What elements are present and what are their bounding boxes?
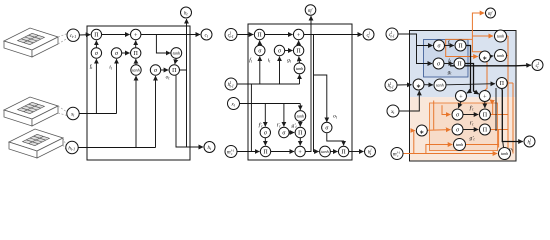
wire product-ho to h^l_t output (349, 151, 364, 153)
orange wire product-i2 elbow (491, 130, 508, 148)
orange wire into tanh-1 (472, 35, 493, 37)
op ast-l (413, 79, 424, 90)
op sigma-i (111, 48, 121, 58)
wire x drop to sigma-f2 (264, 104, 266, 127)
svg-text:tanh: tanh (501, 151, 508, 156)
op sigma-i2 (279, 127, 289, 137)
op product-f2 (479, 109, 490, 120)
op sigma-f2 (452, 109, 463, 120)
inner orange sub-box (430, 103, 498, 151)
op product-o (169, 65, 179, 75)
op tanh-gl (434, 79, 446, 91)
wire m-line input to product-m (237, 151, 259, 153)
node h^l_t output (524, 136, 535, 147)
node c^l_t output (532, 60, 543, 71)
wire product-o to h_t top output (180, 19, 187, 70)
wire product to adder (102, 34, 130, 36)
op ast-b (416, 125, 427, 136)
dashed projection lines slab S2 to node x_t (58, 106, 67, 116)
label i'_t (277, 123, 282, 129)
op tanh-g2 (295, 111, 306, 122)
wire x-line (240, 103, 301, 105)
node m^l_t output (486, 8, 496, 18)
black wire tanh-gl to product-r (446, 84, 495, 85)
wire product-i up to adder (135, 41, 137, 48)
svg-text:tanh: tanh (456, 142, 463, 147)
black wire adder-r down to product-f2 (484, 102, 486, 108)
op tanh-1 (495, 30, 507, 42)
wire tanh-g up to product-ci (298, 57, 301, 64)
label o_t (166, 75, 171, 81)
feature-map slab S1 (input frame for c) (4, 28, 58, 57)
wire sigma-i to product-i (122, 52, 130, 54)
node c^l_{t-1} input (386, 28, 398, 40)
node h_{t-1} input (66, 141, 78, 153)
node c_{t-1} input (67, 29, 79, 41)
svg-text:ct-1: ct-1 (70, 34, 76, 39)
wire product-cf to adder-c (265, 34, 293, 36)
svg-text:+: + (134, 33, 138, 39)
wire sigma-o elbow to product-ho (327, 133, 344, 145)
LSTM cell box (87, 26, 190, 160)
op product-i2 (479, 124, 490, 135)
label o_t (333, 114, 338, 120)
op tanh-o (499, 148, 511, 160)
label o_t (509, 147, 514, 153)
orange wire ast-b to sigma-i2 (427, 129, 450, 132)
svg-text:Π: Π (94, 33, 99, 39)
op adder (131, 29, 141, 39)
wire c-line: c_{t-1} to product (79, 34, 90, 36)
wire adder to c_t output (141, 34, 200, 36)
black wire mid vertical (495, 88, 497, 131)
wire product-ci up to adder-c (298, 41, 300, 46)
op sigma-i (433, 58, 444, 69)
wire c-line input to product (237, 34, 253, 36)
op product-cf (254, 29, 264, 39)
wire h riser to sigma-i (279, 57, 281, 84)
op product-i (454, 58, 465, 69)
op product-ci (293, 45, 303, 55)
wire sigma-f up to product (95, 41, 97, 48)
op sigma-o (150, 65, 160, 75)
label g_t (448, 70, 453, 76)
wire h-line (78, 147, 155, 149)
label f_t (249, 57, 253, 64)
op tanh-g (294, 63, 305, 74)
black wire sigma-i2 to product-i2 (463, 129, 478, 131)
node c^l_t output (363, 29, 374, 40)
node h^l_{t-1} input (385, 79, 397, 91)
orange wire m riser to ast-b (414, 131, 415, 154)
op adder-c (293, 29, 303, 39)
op sigma-f2 (260, 127, 270, 137)
blue region (temporal memory) (410, 31, 515, 97)
black wire c input elbow to sigma-f (398, 34, 432, 64)
svg-text:Π: Π (296, 49, 301, 55)
op product-r (496, 78, 507, 89)
label g_t (287, 58, 292, 64)
op product-f (455, 40, 466, 51)
node m^l_t output (305, 5, 316, 16)
node x_t input (387, 105, 399, 117)
orange wire m riser to tanh-g2 (426, 145, 452, 154)
op product-ho (338, 146, 348, 156)
black thick c-out line to c^l_t (450, 64, 531, 67)
op adder-r (479, 91, 490, 102)
wire sigma-f2 down to product-m (264, 138, 266, 146)
orange wire adder-r up to m^l_t output (472, 13, 487, 90)
op ast-m (479, 51, 490, 62)
svg-text:Π: Π (457, 62, 462, 68)
node x_t input (228, 98, 240, 110)
op sigma-o (322, 122, 332, 132)
orange wire riser to sigma-f2 (442, 105, 450, 114)
svg-text:Π: Π (257, 33, 262, 39)
op sigma-i (274, 45, 284, 55)
svg-text:Π: Π (500, 81, 505, 87)
op product-m (260, 146, 270, 156)
op tanh-g (131, 65, 141, 75)
svg-text:Π: Π (483, 128, 488, 134)
black wire h input to ast-l (397, 84, 412, 86)
svg-text:Π: Π (483, 113, 488, 119)
wire tanh-g2 down to product-mi (299, 121, 301, 126)
wire sigma-o to product-o (161, 69, 168, 71)
wire sigma-i2 to product-mi (289, 132, 294, 134)
svg-text:Π: Π (134, 51, 139, 57)
black wire x input riser to ast-l (399, 91, 419, 111)
black wire sigma-f to product-f (445, 45, 454, 47)
orange wire product-f2 up to adder-r (490, 100, 508, 115)
wire h-line (237, 83, 299, 85)
node c^l_{t-1} input (225, 29, 237, 41)
black wire product-f down to adder-l (466, 46, 470, 94)
orange wire drop to sigma-i2 (433, 101, 435, 130)
ST-LSTM cell box (248, 24, 352, 160)
wire product-m to adder-m (271, 151, 294, 153)
wire x drop to tanh-g2 (299, 104, 301, 110)
op sigma-f (255, 45, 265, 55)
svg-text:ht-1: ht-1 (68, 147, 75, 152)
node h^l_{t-1} input (225, 78, 237, 90)
op adder-l (456, 91, 467, 102)
svg-text:tanh: tanh (497, 53, 504, 58)
svg-text:tanh: tanh (436, 83, 443, 88)
causal LSTM outer box (410, 31, 517, 162)
node h_t top output (181, 7, 192, 18)
node x_t input (67, 107, 79, 119)
svg-text:∗: ∗ (416, 84, 421, 90)
op tanh-g2 (454, 139, 466, 151)
label i'_t (470, 121, 475, 127)
node c_t output (201, 29, 212, 40)
wire c branch down to sigma-o (314, 75, 327, 122)
wire sigma-f up to product-cf (259, 41, 261, 46)
inner blue sub-box (424, 40, 469, 78)
wire x riser to sigma-f (95, 59, 97, 113)
wire m up to m^l_t output (305, 16, 311, 152)
orange wire tanh-g2 out (466, 144, 499, 146)
label g'_t (291, 123, 297, 129)
node m^{l-1}_t input (225, 146, 237, 158)
orange wire product-r right stub (508, 82, 513, 84)
svg-text:tanh: tanh (497, 34, 504, 39)
wire h to x connector (250, 84, 252, 152)
label f'_t (470, 105, 475, 112)
wire h riser to tanh-g (135, 76, 137, 148)
black wire sigma-i to product-i (444, 63, 453, 65)
wire tanh-g up to product-i (135, 59, 137, 65)
wire adder-c to c^l_t output (304, 34, 362, 36)
orange wire top shelf (446, 39, 478, 56)
dashed projection lines slab S1 to node c_{t-1} (58, 34, 67, 44)
label g'_t (470, 136, 476, 142)
orange wire m-in line to tanh-o (404, 153, 498, 155)
feature-map slab S2 (input frame for x) (4, 97, 58, 126)
svg-text:∗: ∗ (482, 56, 487, 62)
op sigma-f (434, 40, 445, 51)
node m^{l-1}_t input (391, 148, 403, 160)
node h_t right output (204, 142, 215, 153)
op adder-m (295, 146, 305, 156)
label f_t (448, 39, 452, 46)
op tanh-c (171, 48, 182, 59)
wire product-mi down to adder-m (299, 138, 301, 146)
op tanh-2 (495, 50, 507, 62)
svg-text:tanh: tanh (173, 51, 180, 56)
svg-text:tanh: tanh (321, 149, 328, 154)
svg-text:Π: Π (298, 131, 303, 137)
svg-text:tanh: tanh (297, 114, 304, 119)
svg-text:Π: Π (458, 44, 463, 50)
op product-mi (295, 127, 305, 137)
label i_t (268, 58, 272, 64)
wire h riser to sigma-o (155, 76, 157, 148)
svg-text:Π: Π (341, 150, 346, 156)
black wire ast-m to tanh-2 (490, 55, 493, 58)
wire x drop to sigma-i2 (283, 104, 285, 127)
orange wire right-side vertical B (512, 83, 514, 154)
wire sigma-i to product-ci (285, 50, 293, 52)
black wire c branch to sigma-f (417, 45, 433, 47)
label i_t (109, 65, 113, 71)
op sigma-i2 (452, 124, 463, 135)
orange wire tanh-2 right stub (507, 55, 508, 57)
op product-i (131, 48, 141, 58)
svg-text:tanh: tanh (132, 68, 139, 73)
node h^l_t output (365, 146, 376, 157)
wire tanh-c down to product-o (175, 58, 176, 64)
black wire adder-l down to sigma-f2 (458, 102, 461, 108)
wire tanh-hc to product-ho (330, 151, 337, 153)
svg-text:Π: Π (172, 68, 177, 74)
label f'_t (259, 122, 264, 129)
orange wire right-side vertical A (507, 36, 509, 148)
black wire product-i down to adder-r (465, 64, 479, 95)
dashed projection lines slab S3 to node h_{t-1} (63, 138, 66, 150)
op tanh-hc (320, 146, 331, 157)
black wire tanh-o up join (502, 142, 505, 148)
svg-text:tanh: tanh (296, 66, 303, 71)
black wire sigma-f2 to product-f2 (463, 114, 478, 116)
label f_t (90, 63, 94, 70)
wire x riser to sigma-i (116, 59, 118, 113)
wire h branch down to h_t right output (176, 74, 203, 147)
wire x-line (79, 113, 116, 115)
orange wire tanh-1 right stub (507, 35, 508, 37)
wire h riser to tanh-g (299, 75, 301, 85)
op sigma-f (91, 48, 101, 58)
op product-f (91, 29, 101, 39)
feature-map slab S3 (input frame for h) (9, 129, 63, 158)
wire h riser right edge down-join (186, 70, 188, 147)
black wire product-r down to h^l_t (502, 89, 523, 142)
svg-text:∗: ∗ (419, 130, 424, 136)
black wire ast-l to tanh-gl (424, 84, 433, 86)
wire c branch down to tanh-hc (314, 35, 319, 152)
wire h riser to sigma-f (259, 57, 261, 84)
orange region (spatio-temporal memory) (410, 97, 515, 160)
wire c branch down to tanh (156, 35, 170, 54)
svg-text:Π: Π (263, 150, 268, 156)
label i_t (448, 58, 452, 64)
